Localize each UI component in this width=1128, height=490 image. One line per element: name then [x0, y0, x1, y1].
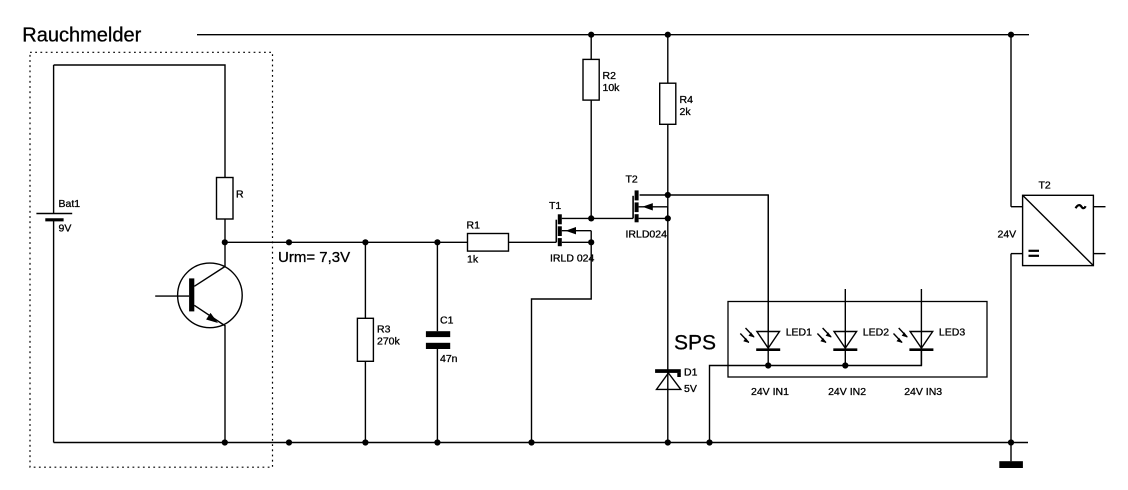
node main wire terminal	[286, 239, 292, 245]
wire right ground drop	[1010, 254, 1012, 443]
node T2 drain R4	[665, 192, 671, 198]
node T1 source	[588, 239, 594, 245]
svg-text:24V IN3: 24V IN3	[904, 386, 942, 398]
LED3	[894, 289, 966, 398]
svg-text:LED1: LED1	[786, 327, 812, 339]
node SPS ground	[706, 439, 712, 445]
wire T1 source to ground rail	[532, 242, 592, 442]
wire R3 top	[364, 242, 366, 318]
svg-text:R2: R2	[603, 70, 617, 82]
node R4 line ground	[665, 439, 671, 445]
svg-text:T1: T1	[549, 200, 561, 212]
wire R bottom to node	[224, 219, 226, 242]
wire main node to R1	[225, 241, 468, 243]
svg-text:LED2: LED2	[863, 327, 889, 339]
svg-text:Urm= 7,3V: Urm= 7,3V	[278, 249, 350, 266]
wire top supply rail	[197, 34, 1029, 36]
resistor R3	[357, 318, 400, 361]
node C1 bottom	[434, 439, 440, 445]
capacitor C1	[426, 315, 458, 366]
node right rail top	[1008, 32, 1014, 38]
ground	[999, 443, 1023, 469]
wire battery top to R	[54, 65, 225, 178]
svg-text:47n: 47n	[440, 353, 458, 365]
node R4 top rail	[665, 32, 671, 38]
battery Bat1	[36, 65, 80, 443]
svg-text:10k: 10k	[603, 82, 621, 94]
svg-text:C1: C1	[440, 315, 454, 327]
node ground rail terminal	[286, 439, 292, 445]
node C1 top	[434, 239, 440, 245]
node emitter/ground rail	[222, 439, 228, 445]
svg-text:D1: D1	[684, 367, 698, 379]
dashed module box	[30, 52, 273, 467]
wire SPS input common	[710, 351, 922, 443]
svg-text:270k: 270k	[377, 336, 401, 348]
node R3 bottom	[362, 439, 368, 445]
wire emitter down	[224, 326, 226, 443]
LED1	[740, 195, 812, 398]
svg-text:LED3: LED3	[939, 327, 965, 339]
svg-text:IRLD 024: IRLD 024	[550, 253, 595, 265]
transistor Q1	[155, 263, 242, 328]
LED2	[817, 289, 889, 398]
svg-text:R4: R4	[680, 94, 694, 106]
wire R1 to T1 gate	[509, 241, 557, 243]
node R3 top	[362, 239, 368, 245]
node R2 top rail	[588, 32, 594, 38]
wire C1 top	[436, 242, 438, 331]
svg-text:9V: 9V	[59, 223, 72, 235]
zener D1	[655, 367, 697, 396]
wire bottom ground rail	[54, 442, 1028, 444]
node T1 drain R2	[588, 215, 594, 221]
svg-text:T2: T2	[626, 173, 638, 185]
svg-text:2k: 2k	[680, 106, 692, 118]
svg-text:24V IN2: 24V IN2	[828, 386, 866, 398]
resistor R2	[583, 35, 620, 219]
transistor T1	[549, 200, 595, 265]
wire T2 drain to LED1	[640, 195, 769, 332]
wire PSU top pin	[1011, 206, 1023, 208]
svg-text:R: R	[236, 189, 244, 201]
node T1 source ground	[528, 439, 534, 445]
wire C1 bottom	[436, 349, 438, 443]
wire PSU bottom pin	[1011, 253, 1023, 255]
svg-text:T2: T2	[1039, 179, 1051, 191]
svg-text:Rauchmelder: Rauchmelder	[22, 25, 141, 47]
wire collector up	[224, 242, 226, 266]
transistor T2	[626, 173, 668, 240]
svg-text:R1: R1	[467, 220, 481, 232]
wire T1 drain to T2 gate	[562, 217, 633, 219]
node ground rail right	[1008, 439, 1014, 445]
resistor R	[217, 178, 245, 220]
wire right supply drop	[1010, 35, 1012, 207]
LED module box	[728, 302, 987, 378]
node LED2 cathode	[842, 362, 848, 368]
node T2 source R4 line	[665, 215, 671, 221]
power supply T2	[998, 179, 1106, 265]
svg-text:Bat1: Bat1	[59, 198, 81, 210]
svg-text:24V IN1: 24V IN1	[751, 386, 789, 398]
wire R3 bottom	[364, 361, 366, 442]
node R/collector junction	[222, 239, 228, 245]
node LED1 cathode	[765, 362, 771, 368]
svg-text:R3: R3	[377, 324, 391, 336]
svg-text:5V: 5V	[684, 383, 697, 395]
svg-text:1k: 1k	[467, 254, 479, 266]
resistor R4	[660, 35, 693, 443]
resistor R1	[467, 220, 509, 266]
svg-text:SPS: SPS	[674, 332, 716, 355]
svg-text:24V: 24V	[998, 228, 1017, 240]
svg-text:IRLD024: IRLD024	[626, 229, 668, 241]
